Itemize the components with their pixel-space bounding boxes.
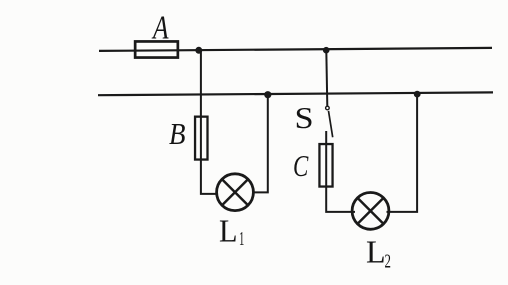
wire: from lamp L2 right side up to neutral junction — [387, 94, 418, 212]
wire: top supply line (live) — [99, 48, 492, 51]
switch S: open blade — [329, 111, 333, 137]
svg-text:C: C — [293, 149, 309, 183]
fuse A — [135, 41, 178, 57]
lamp L2 — [352, 193, 389, 230]
svg-text:S: S — [295, 101, 314, 135]
svg-text:2: 2 — [385, 251, 391, 273]
wire: from switch through fuse C down to lamp L2 — [326, 131, 355, 212]
lamp L1 — [217, 174, 254, 211]
fuse B — [195, 117, 207, 160]
wire: vertical from left top-wire junction through fuse B down to lamp L1 — [201, 50, 218, 194]
fuse C — [319, 144, 332, 187]
wire: from lamp L1 right side up to neutral junction — [252, 95, 268, 193]
svg-text:1: 1 — [239, 228, 244, 250]
node: junction dot on top wire, right — [323, 47, 330, 54]
node: junction dot on neutral wire, left — [264, 91, 271, 98]
switch S: fixed contact circle — [326, 106, 330, 110]
svg-text:L: L — [366, 235, 386, 270]
svg-text:B: B — [169, 116, 185, 151]
wire: second supply line (neutral) — [98, 92, 493, 95]
wire: vertical from right top-wire junction down to switch — [326, 50, 327, 106]
node: junction dot on top wire, left — [195, 47, 202, 54]
svg-text:A: A — [151, 10, 169, 47]
svg-text:L: L — [219, 214, 238, 249]
node: junction dot on neutral wire, right — [414, 91, 421, 98]
